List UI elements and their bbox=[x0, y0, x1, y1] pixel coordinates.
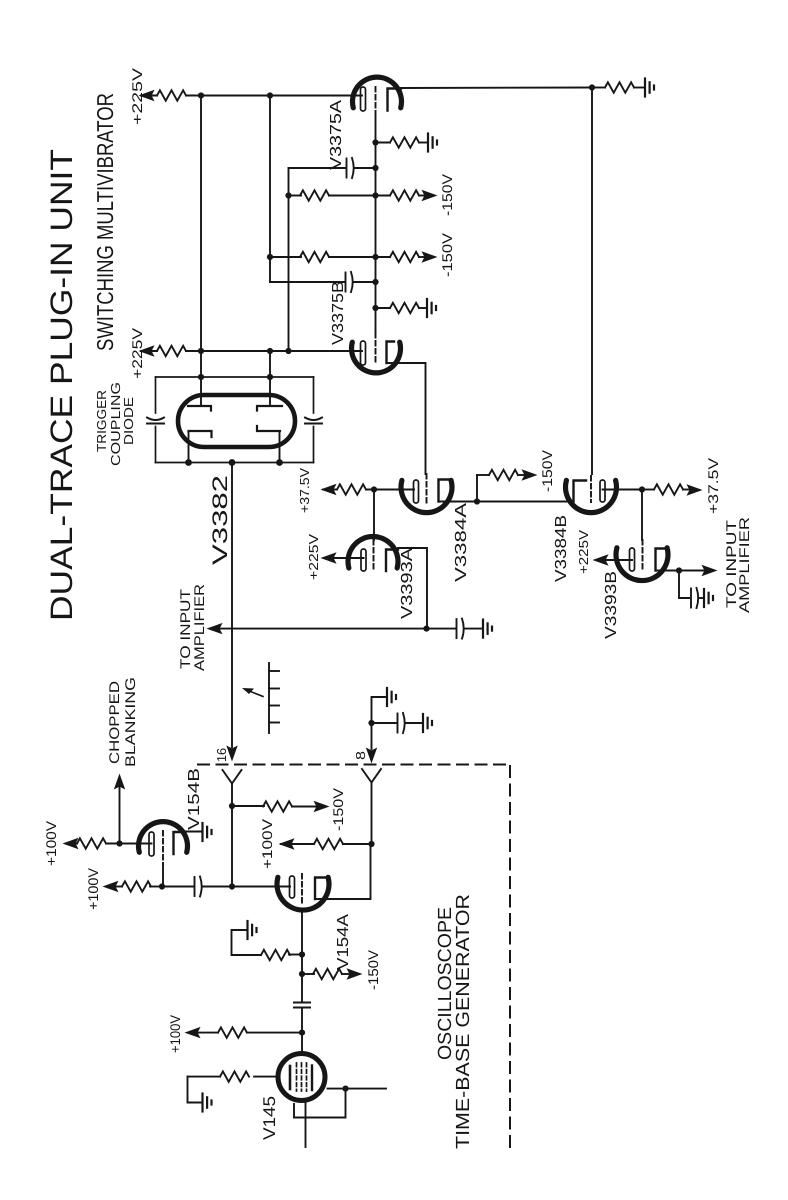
wire x642 down to V3393B grid bbox=[641, 490, 643, 541]
svg-text:CHOPPED: CHOPPED bbox=[106, 681, 122, 764]
junction x345 y1088 bbox=[342, 1086, 348, 1092]
resistor +100V row y844 bbox=[314, 839, 343, 849]
wire junction to V154A cathode bbox=[232, 886, 290, 888]
svg-text:TIME-BASE GENERATOR: TIME-BASE GENERATOR bbox=[453, 894, 474, 1149]
svg-text:AMPLIFIER: AMPLIFIER bbox=[191, 584, 207, 671]
wire V3382 output down bbox=[231, 463, 233, 748]
junction box bottom x279 bbox=[276, 459, 283, 466]
grid V3375B bbox=[375, 333, 377, 364]
svg-text:V145: V145 bbox=[260, 1096, 279, 1140]
waveform comb bbox=[269, 663, 279, 733]
plate V3384B bbox=[574, 481, 587, 502]
junction x288 y195 bbox=[285, 192, 291, 198]
tube V3382 envelope (stadium) bbox=[178, 395, 295, 447]
wire rail1 bbox=[186, 95, 362, 97]
junction box bottom x188 bbox=[185, 459, 192, 466]
junction x302 y1032 bbox=[299, 1030, 305, 1036]
wire ground corner (V154A cathode) bbox=[232, 930, 262, 955]
box left edge lower bbox=[155, 427, 157, 463]
arrow +225V (V3393B) bbox=[594, 555, 608, 565]
arrow +100V row y886 bbox=[104, 882, 118, 892]
wire V3393B cathode to +225V arrow bbox=[602, 559, 632, 561]
capacitor C right of V3382 (plates horizontal) bbox=[305, 418, 322, 424]
wire fork-16 stem bbox=[231, 784, 233, 807]
resistor -150V (V3384) bbox=[477, 474, 489, 476]
ground (V154B plate) bbox=[203, 823, 212, 841]
wire cap to +100V row bbox=[301, 1008, 303, 1051]
grids V145 (dashed) bbox=[297, 1063, 307, 1091]
wire V3393A plate right and down bbox=[398, 548, 427, 629]
wire right to cap bbox=[372, 722, 397, 724]
diode V3382b cathode bbox=[257, 426, 280, 431]
resistor to ground (V154A cathode) bbox=[289, 954, 302, 956]
wire V3384A plate to V3384B plate bbox=[439, 501, 574, 503]
CRT deflection plate fork 16 bbox=[223, 770, 242, 784]
box left edge upper bbox=[155, 377, 157, 413]
arrow +37.5V right bbox=[688, 485, 702, 495]
tube V3393A envelope bbox=[348, 537, 398, 568]
ground (plate8 branch lower) bbox=[423, 714, 432, 732]
svg-text:V3384A: V3384A bbox=[453, 503, 470, 582]
svg-text:+100V: +100V bbox=[85, 867, 101, 910]
coupling capacitor C1 row y168 bbox=[289, 167, 346, 169]
wire chopped blanking up bbox=[119, 787, 121, 843]
junction rail2 x288 bbox=[285, 348, 291, 354]
arrow +225V rail2 bbox=[140, 346, 154, 356]
wire y886 junction to cap bbox=[162, 886, 193, 888]
svg-text:16: 16 bbox=[214, 748, 229, 762]
wire to ground top-right bbox=[634, 87, 644, 89]
wire V145 plate right bbox=[328, 1088, 387, 1090]
plate V3375A bbox=[388, 89, 402, 111]
junction box top x201 bbox=[198, 374, 204, 380]
tube V154B envelope bbox=[139, 822, 188, 853]
resistor +37.5V right bbox=[642, 489, 654, 491]
wire x477 up to -150V resistor bbox=[476, 475, 478, 502]
plate V145 bbox=[311, 1066, 313, 1091]
svg-text:-150V: -150V bbox=[539, 449, 555, 492]
junction x642 y489 bbox=[639, 486, 645, 492]
cathode V3375B bbox=[361, 341, 366, 365]
junction x302 y954 bbox=[299, 951, 305, 957]
wire V3384B cathode right bbox=[603, 489, 643, 491]
resistor +37.5V left bbox=[323, 489, 337, 491]
arrow -150V (V3384) bbox=[523, 470, 537, 480]
resistor R top-right bbox=[592, 87, 605, 89]
plate V3384A bbox=[439, 480, 452, 502]
ground top-right bbox=[645, 79, 654, 97]
tube V3384B envelope bbox=[566, 480, 617, 512]
wire fork-8 stem down bbox=[371, 783, 373, 845]
grid V154B bbox=[162, 831, 164, 864]
junction x374 y489 bbox=[371, 486, 377, 492]
svg-text:V3375A: V3375A bbox=[328, 100, 345, 170]
junction grid x375 y168 bbox=[372, 165, 378, 171]
ground (plate8 branch upper) bbox=[387, 688, 396, 706]
arrow +100V row y844 bbox=[280, 839, 294, 849]
wire x232 fork16 node down to grid row bbox=[231, 806, 233, 887]
cathode V145 bbox=[289, 1066, 292, 1089]
wire vertical x592 down to V3384B grid bbox=[591, 88, 593, 475]
svg-text:DIODE: DIODE bbox=[121, 397, 136, 445]
wire rail2 bbox=[186, 350, 362, 352]
svg-text:TRIGGER: TRIGGER bbox=[94, 390, 109, 452]
resistor +100V y1032 bbox=[218, 1027, 247, 1037]
cathode V3384A bbox=[414, 480, 419, 503]
grid V3393A bbox=[373, 540, 375, 570]
arrow +225V (V3393A) bbox=[322, 553, 336, 563]
svg-text:DUAL-TRACE PLUG-IN UNIT: DUAL-TRACE PLUG-IN UNIT bbox=[44, 149, 79, 621]
junction box bottom x232 (output) bbox=[229, 459, 236, 466]
wire +100V row y844 bbox=[281, 843, 314, 845]
wire cap to junction x232 bbox=[203, 886, 232, 888]
resistor -150V y974 bbox=[302, 973, 314, 975]
wire V3393B output down to cap bbox=[679, 571, 689, 599]
svg-text:-150V: -150V bbox=[330, 787, 346, 831]
diode V3382b cathode lead bbox=[279, 431, 281, 463]
grid V3393B bbox=[642, 540, 644, 571]
cathode V154A bbox=[290, 876, 295, 898]
plate V3375B bbox=[387, 342, 395, 364]
junction x302 y974 bbox=[299, 971, 305, 977]
tube V3375A envelope bbox=[353, 77, 402, 108]
wire V3393B plate to output node bbox=[656, 570, 680, 572]
grid V3384A bbox=[426, 474, 428, 503]
box bottom edge bbox=[156, 462, 314, 464]
svg-text:-150V: -150V bbox=[365, 949, 381, 990]
dashed boundary vertical bbox=[509, 766, 511, 1147]
plate V154B bbox=[174, 832, 185, 854]
wire +100V row y1032 bbox=[247, 1032, 302, 1034]
wire vertical x201 rail1 to V3382 box bbox=[200, 96, 202, 378]
box around V3382: top edge bbox=[156, 376, 314, 378]
resistor +100V (V154B cathode) bbox=[77, 838, 106, 848]
label TRIGGER COUPLING DIODE bbox=[94, 382, 136, 466]
svg-text:V3393B: V3393B bbox=[603, 571, 620, 639]
diode V3382b plate bbox=[257, 406, 282, 411]
svg-text:BLANKING: BLANKING bbox=[122, 677, 138, 767]
plate V3393B bbox=[656, 549, 667, 571]
capacitor C coupling y886 bbox=[195, 877, 202, 897]
wire up-left to ground bbox=[372, 697, 387, 723]
wire vertical x288 coupling network to rail2 bbox=[288, 168, 290, 351]
resistor grid-A to -150V bbox=[376, 195, 391, 197]
resistor grid-A to ground bbox=[376, 142, 391, 144]
resistor -150V y806 bbox=[232, 805, 264, 807]
dashed boundary horizontal bbox=[198, 764, 512, 766]
ground bypass y628 bbox=[483, 620, 492, 638]
resistor grid V145 bbox=[220, 1071, 249, 1081]
arrow down to pin 16 bbox=[227, 747, 237, 761]
resistor R rail2 bbox=[157, 346, 186, 356]
wire vertical x270 rail2 to V3382 box bbox=[269, 351, 271, 377]
arrow +100V (V154B cathode) bbox=[75, 843, 77, 845]
svg-text:-150V: -150V bbox=[439, 232, 455, 277]
arrow +225V rail1 bbox=[140, 91, 154, 101]
arrow down to pin 8 bbox=[367, 749, 377, 763]
annotation arrow to output line bbox=[248, 691, 263, 697]
arrow -150V y257 bbox=[423, 252, 437, 262]
junction grid x375 y257 bbox=[372, 254, 378, 260]
arrow to input amplifier right bbox=[703, 566, 717, 576]
wire rail1 to resistor bbox=[141, 95, 157, 97]
arrow to input amplifier left bbox=[208, 624, 222, 634]
wire V3393A cathode to +225V arrow bbox=[330, 557, 364, 559]
svg-text:+100V: +100V bbox=[167, 1014, 183, 1053]
ground grid-A resistor bbox=[428, 134, 437, 152]
ground (V3393B output) bbox=[704, 589, 713, 607]
coupling capacitor C2 row y282 bbox=[270, 281, 345, 283]
wire rail2 to resistor bbox=[141, 350, 157, 352]
wire vertical x270 rail1 to coupling-cap corner bbox=[269, 96, 271, 283]
svg-text:+100V: +100V bbox=[259, 818, 275, 869]
svg-text:-150V: -150V bbox=[439, 173, 455, 216]
grid V154B lead down bbox=[162, 864, 164, 887]
junction rail1-left rail bbox=[198, 92, 204, 98]
cathode V3393B bbox=[630, 548, 635, 571]
tube V154A envelope bbox=[277, 877, 329, 910]
wire cathode down bbox=[301, 909, 303, 1001]
wire V145 grid left row y1076 bbox=[254, 1076, 276, 1078]
diode V3382a cathode lead bbox=[188, 431, 190, 463]
junction grid x375 y282 bbox=[372, 279, 378, 285]
junction x232 y806 bbox=[229, 803, 235, 809]
junction rail2 x201 bbox=[198, 348, 204, 354]
svg-text:+100V: +100V bbox=[43, 820, 59, 866]
wire V3375B plate to V3384A grid bbox=[387, 363, 426, 474]
junction box top x270 bbox=[267, 374, 273, 380]
junction grid x375 y195 bbox=[372, 192, 378, 198]
junction x119 y843 bbox=[116, 840, 122, 846]
svg-text:V3375B: V3375B bbox=[330, 281, 347, 345]
junction x427 y628 bbox=[423, 626, 429, 632]
junction x679 y571 bbox=[676, 567, 682, 573]
svg-text:AMPLIFIER: AMPLIFIER bbox=[736, 517, 752, 613]
tube V3384A envelope bbox=[401, 480, 452, 512]
junction grid x375 y142 bbox=[372, 139, 378, 145]
svg-text:+37.5V: +37.5V bbox=[297, 468, 312, 513]
wire grid rail V3375A down bbox=[375, 117, 377, 333]
diode V3382b anode lead bbox=[269, 377, 271, 405]
svg-text:+225V: +225V bbox=[129, 327, 145, 379]
capacitor C (plate8 branch) bbox=[398, 713, 405, 733]
svg-text:+37.5V: +37.5V bbox=[705, 457, 721, 514]
svg-text:SWITCHING MULTIVIBRATOR: SWITCHING MULTIVIBRATOR bbox=[92, 93, 118, 351]
wire to input amplifier right bbox=[679, 570, 707, 572]
junction node top-right bbox=[589, 84, 595, 90]
cathode V3393A bbox=[361, 549, 366, 571]
wire V145 feedback loop bbox=[294, 1089, 346, 1118]
tube V3393B envelope bbox=[616, 548, 668, 581]
wire V154A plate to fork8 line bbox=[315, 844, 371, 899]
wire ground corner (V145 grid) bbox=[188, 1077, 202, 1103]
ground grid-B resistor bbox=[427, 299, 436, 317]
resistor +100V row y886 bbox=[150, 886, 162, 888]
CRT deflection plate fork 8 bbox=[362, 769, 381, 783]
junction x371 y723 bbox=[368, 720, 374, 726]
svg-text:V3382: V3382 bbox=[209, 475, 232, 565]
diode V3382a plate bbox=[188, 406, 211, 411]
box right edge upper bbox=[313, 377, 315, 413]
svg-text:+225V: +225V bbox=[306, 534, 321, 580]
junction rail1-right rail bbox=[267, 92, 273, 98]
diode V3382a cathode bbox=[189, 431, 212, 437]
ground (V154A cathode) bbox=[248, 921, 257, 939]
junction x477 y501 bbox=[474, 498, 480, 504]
grid V3375A bbox=[375, 87, 377, 117]
svg-text:V154B: V154B bbox=[186, 768, 203, 830]
svg-text:V3384B: V3384B bbox=[553, 515, 570, 582]
resistor coupling row y257 left bbox=[270, 256, 301, 258]
arrow -150V y806 bbox=[315, 802, 329, 812]
cathode V3375A bbox=[361, 87, 366, 111]
wire V154B plate to ground bbox=[184, 831, 201, 833]
wire V3375A plate to top-right node bbox=[401, 87, 592, 90]
junction x162 y886 bbox=[159, 883, 165, 889]
junction x371 y844 bbox=[368, 841, 374, 847]
resistor grid-B to ground bbox=[376, 307, 391, 309]
grid V154A bbox=[301, 874, 303, 906]
wire V145 cathode down bbox=[305, 1103, 307, 1147]
arrow chopped blanking bbox=[115, 775, 125, 789]
junction grid x375 y308 bbox=[372, 305, 378, 311]
cathode V3384B bbox=[600, 480, 605, 502]
svg-text:+225V: +225V bbox=[576, 530, 591, 574]
svg-text:V3393A: V3393A bbox=[399, 548, 416, 619]
svg-text:8: 8 bbox=[353, 751, 368, 760]
junction x270 y257 bbox=[267, 254, 273, 260]
svg-text:V154A: V154A bbox=[335, 914, 352, 970]
wire x374 down to V3393A grid bbox=[373, 490, 375, 541]
arrow +37.5V left bbox=[322, 485, 336, 495]
plate V154A bbox=[315, 878, 328, 900]
capacitor C bypass y628 bbox=[457, 619, 464, 639]
resistor coupling row y195 left bbox=[289, 195, 302, 197]
wire V154B cathode row y843 bbox=[106, 843, 152, 845]
capacitor C left of V3382 (plates horizontal) bbox=[147, 418, 164, 424]
wire down to arrow 8 bbox=[371, 723, 373, 749]
plate V3393A bbox=[386, 550, 398, 572]
tube V3375B envelope bbox=[351, 342, 400, 373]
capacitor C (V3393B output) bbox=[691, 588, 698, 608]
tube V145 envelope bbox=[278, 1054, 325, 1101]
resistor grid-B to -150V bbox=[376, 256, 391, 258]
wire y628 to bypass cap bbox=[427, 628, 456, 630]
grid V3384B bbox=[590, 476, 592, 502]
cathode V154B bbox=[149, 832, 154, 856]
resistor R rail1 bbox=[157, 90, 186, 100]
capacitor C timing (plates horizontal) bbox=[294, 1003, 310, 1008]
junction rail2 x270 bbox=[267, 348, 273, 354]
arrow -150V y974 bbox=[348, 969, 362, 979]
arrow +100V y1032 bbox=[186, 1028, 200, 1038]
junction x232 y886 bbox=[229, 883, 235, 889]
ground (V145 grid) bbox=[203, 1094, 212, 1112]
diode V3382a anode lead bbox=[200, 377, 202, 405]
wire to input amplifier left bbox=[216, 628, 427, 630]
box right edge lower bbox=[313, 427, 315, 463]
arrow -150V y195 bbox=[423, 191, 437, 201]
